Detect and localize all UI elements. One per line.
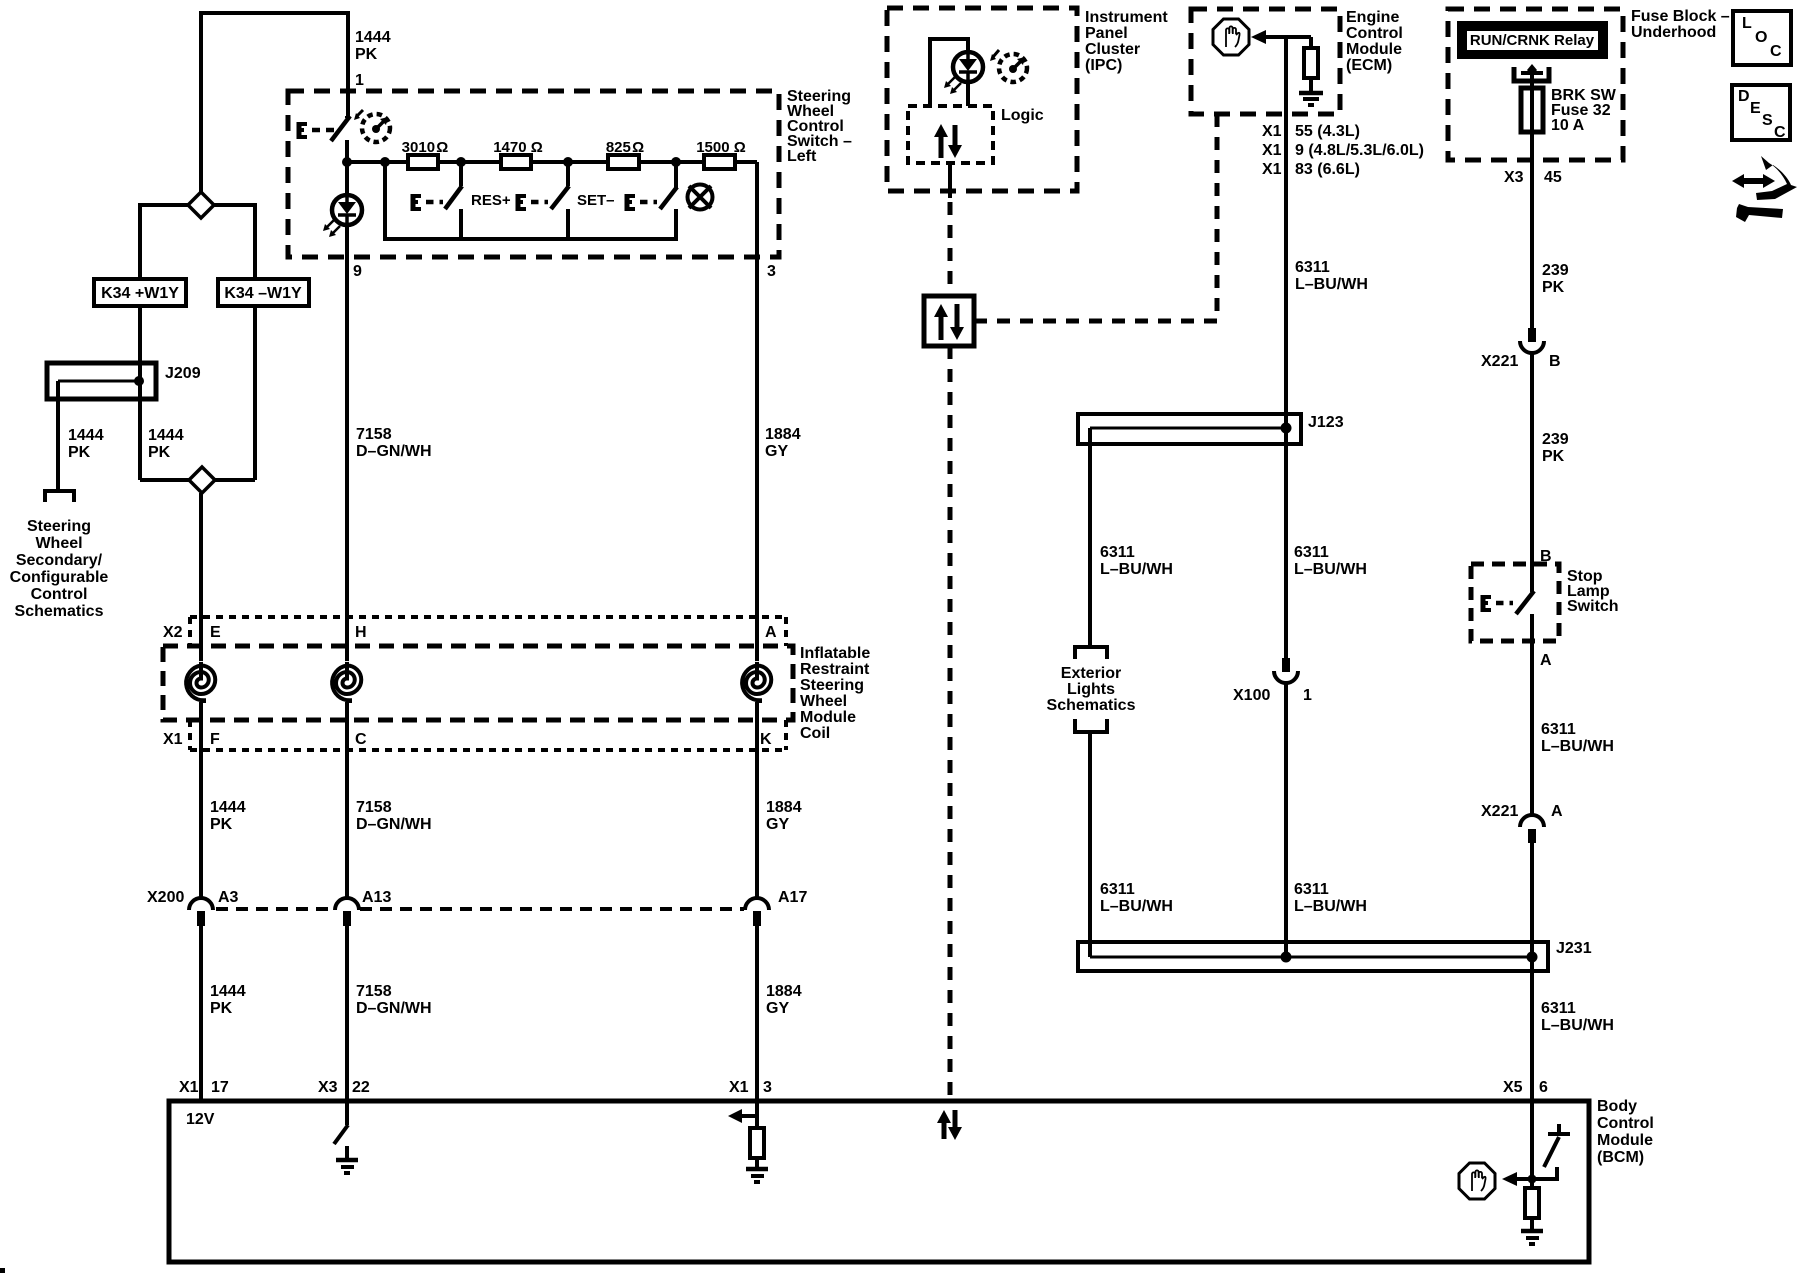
svg-text:7158: 7158: [356, 426, 392, 443]
svg-text:3: 3: [767, 263, 776, 280]
svg-text:239: 239: [1542, 262, 1569, 279]
page corner mark: [0, 1268, 5, 1273]
svg-text:PK: PK: [148, 444, 171, 461]
svg-text:239: 239: [1542, 431, 1569, 448]
svg-text:PK: PK: [210, 1000, 233, 1017]
ground (BCM pin 22): [345, 1146, 349, 1160]
svg-text:H: H: [355, 624, 367, 641]
fuse block underhood box: [1448, 9, 1623, 160]
svg-text:Logic: Logic: [1001, 107, 1044, 124]
wire diamond to coil E: [199, 493, 203, 664]
svg-text:RES+: RES+: [471, 192, 511, 209]
svg-text:45: 45: [1544, 169, 1562, 186]
wire coil C to X200 A13: [345, 702, 349, 899]
wire LED loop: [930, 39, 968, 106]
serial data dashed wire down: [948, 202, 953, 296]
switch S2 E symbol: [411, 194, 416, 211]
connector X200 terminal A3: [189, 898, 213, 910]
svg-text:K34 +W1Y: K34 +W1Y: [101, 285, 179, 302]
svg-text:A13: A13: [362, 889, 391, 906]
ground (BCM pin 6): [1521, 1229, 1543, 1234]
svg-text:Module: Module: [800, 709, 856, 726]
connector X100 terminal: [1282, 658, 1290, 672]
svg-text:PK: PK: [355, 46, 378, 63]
svg-text:X1: X1: [179, 1079, 199, 1096]
octagon hand symbol (ECM): [1213, 19, 1249, 55]
svg-text:SET–: SET–: [577, 192, 615, 209]
svg-text:1444: 1444: [355, 29, 391, 46]
gauge actuator arrow: [993, 50, 999, 57]
svg-text:PK: PK: [1542, 279, 1565, 296]
svg-text:12V: 12V: [186, 1111, 215, 1128]
stop lamp switch blade: [1516, 591, 1534, 614]
svg-text:7158: 7158: [356, 799, 392, 816]
DESC reference box: [1732, 85, 1790, 140]
serial data junction box: [924, 296, 974, 346]
RUN/CRNK relay: [1457, 21, 1608, 59]
BCM internal input arrow (pin 3): [755, 1101, 759, 1128]
switch S1 on/off: [345, 116, 349, 118]
svg-text:Lights: Lights: [1067, 681, 1115, 698]
connector X221 terminal A: [1520, 815, 1544, 827]
wire coil F to X200 A3: [199, 702, 203, 899]
coil 1 (E-F): [179, 661, 223, 705]
wire rail to pin 3: [755, 162, 759, 664]
svg-text:6311: 6311: [1100, 881, 1135, 898]
svg-text:L–BU/WH: L–BU/WH: [1541, 1017, 1614, 1034]
svg-text:1470 Ω: 1470 Ω: [493, 139, 543, 156]
svg-text:(BCM): (BCM): [1597, 1149, 1644, 1166]
svg-text:6311: 6311: [1294, 544, 1329, 561]
svg-text:E: E: [1750, 100, 1761, 117]
wire LED to logic: [966, 82, 970, 106]
svg-text:A: A: [765, 624, 777, 641]
resistor 1470 ohm: [501, 155, 531, 169]
svg-text:1: 1: [355, 72, 364, 89]
svg-text:Switch: Switch: [1567, 598, 1619, 615]
svg-text:1884: 1884: [766, 983, 802, 1000]
LED emission arrows: [946, 77, 961, 92]
svg-text:1: 1: [1303, 687, 1312, 704]
svg-text:Schematics: Schematics: [15, 603, 104, 620]
resistor (ECM internal): [1309, 37, 1313, 48]
svg-text:S: S: [1762, 112, 1773, 129]
svg-text:X3: X3: [1504, 169, 1524, 186]
BCM serial data arrows: [942, 1123, 947, 1139]
svg-text:D: D: [1738, 88, 1750, 105]
lamp icon (circle X): [688, 185, 713, 210]
serial data dashed wire to BCM: [948, 346, 953, 1100]
svg-text:K34 –W1Y: K34 –W1Y: [224, 285, 302, 302]
switch S3 (tap 2): [566, 164, 570, 186]
svg-text:J123: J123: [1308, 414, 1344, 431]
svg-text:GY: GY: [766, 1000, 789, 1017]
svg-text:6311: 6311: [1541, 1000, 1576, 1017]
resistor (BCM pin 3): [750, 1128, 764, 1158]
diagnostic icon wrench: [1736, 204, 1783, 222]
svg-text:A17: A17: [778, 889, 807, 906]
gauge icon (cruise): [362, 114, 390, 142]
junction box arrows: [939, 317, 944, 340]
svg-text:F: F: [210, 731, 220, 748]
svg-text:O: O: [1755, 29, 1767, 46]
body control module box: [169, 1101, 1589, 1262]
coil 3 (A-K): [735, 661, 779, 705]
fuse BRK SW Fuse 32: [1521, 88, 1543, 132]
svg-text:Control: Control: [1597, 1115, 1654, 1132]
svg-text:X221: X221: [1481, 353, 1518, 370]
junction dots on rail: [342, 157, 352, 167]
splice pack J231: [1078, 942, 1548, 971]
svg-text:6: 6: [1539, 1079, 1548, 1096]
LED cruise indicator: [953, 52, 983, 82]
wire exterior lights to J231: [1088, 732, 1092, 957]
wire ECM 55 to J123: [1284, 37, 1288, 414]
splice diamond bottom: [140, 478, 189, 482]
wire X221 B to stop lamp switch: [1530, 353, 1534, 592]
LED emission arrows: [325, 220, 340, 235]
wire S1 to rail: [345, 140, 349, 164]
resistor K34 +W1Y: [94, 279, 186, 306]
switch S4 E symbol: [625, 194, 630, 211]
logic bidirectional arrows: [939, 133, 944, 158]
svg-text:83 (6.6L): 83 (6.6L): [1295, 161, 1360, 178]
svg-text:6311: 6311: [1295, 259, 1330, 276]
stop lamp switch dashes: [1496, 601, 1513, 606]
connector X221 terminal B: [1528, 328, 1536, 342]
svg-text:6311: 6311: [1541, 721, 1576, 738]
svg-text:Engine: Engine: [1346, 9, 1399, 26]
wire diamond to K34-W1Y: [214, 205, 255, 279]
svg-text:9 (4.8L/5.3L/6.0L): 9 (4.8L/5.3L/6.0L): [1295, 142, 1424, 159]
svg-text:C: C: [1774, 124, 1786, 141]
ground (ECM): [1299, 91, 1323, 96]
svg-text:825 Ω: 825 Ω: [606, 139, 644, 156]
connector X200 terminal A17: [745, 898, 769, 910]
diagnostic icon double arrow: [1741, 178, 1766, 184]
engine control module box: [1191, 9, 1340, 114]
off-page connector (steering wheel secondary): [45, 491, 74, 502]
wire X221 A to J231: [1530, 843, 1534, 957]
switch S1 E symbol: [297, 122, 302, 139]
svg-text:C: C: [355, 731, 367, 748]
svg-text:GY: GY: [765, 443, 788, 460]
svg-text:X1: X1: [1262, 142, 1282, 159]
svg-text:K: K: [760, 731, 772, 748]
svg-text:X200: X200: [147, 889, 184, 906]
connector X2/X1 dotted box: [190, 615, 786, 619]
wire J231 to BCM X5 6: [1530, 957, 1534, 1102]
svg-text:A: A: [1551, 803, 1563, 820]
coil 2 (H-C): [325, 661, 369, 705]
off-page connector exterior lights (bottom): [1075, 719, 1107, 732]
svg-text:A3: A3: [218, 889, 239, 906]
wire pin 9 down to coil H: [345, 225, 349, 664]
wire X100 to J231: [1284, 683, 1288, 957]
arrow to octagon (ECM): [1251, 30, 1266, 44]
svg-text:Control: Control: [1346, 25, 1403, 42]
coil module dashed box: [163, 646, 793, 720]
svg-text:Inflatable: Inflatable: [800, 645, 870, 662]
wire J123 to X100: [1284, 444, 1288, 659]
svg-text:Steering: Steering: [800, 677, 864, 694]
switch S1 dashes: [312, 128, 334, 133]
wire K34+W1Y to lower diamond: [138, 306, 142, 480]
wire X200 A3 to BCM 17: [199, 926, 203, 1102]
svg-text:Control: Control: [31, 586, 88, 603]
svg-text:10 A: 10 A: [1551, 117, 1585, 134]
wire K34-W1Y to lower diamond: [253, 306, 257, 480]
svg-text:Wheel: Wheel: [35, 535, 82, 552]
wire coil K to X200 A17: [755, 702, 759, 899]
svg-text:3010 Ω: 3010 Ω: [402, 139, 449, 156]
svg-text:Schematics: Schematics: [1047, 697, 1136, 714]
svg-text:L–BU/WH: L–BU/WH: [1100, 898, 1173, 915]
BCM internal switch (pin 22): [345, 1101, 349, 1125]
svg-text:Secondary/: Secondary/: [16, 552, 103, 569]
connector X200 terminal A13: [335, 898, 359, 910]
off-page connector exterior lights (top): [1075, 647, 1107, 659]
switch S3 dashes: [531, 200, 548, 205]
wire diamond to K34+W1Y: [140, 205, 188, 279]
svg-text:X221: X221: [1481, 803, 1518, 820]
splice diamond top: [188, 192, 214, 218]
resistor K34 -W1Y: [218, 279, 309, 306]
resistor (BCM pin 6): [1525, 1188, 1539, 1218]
steering wheel control switch box: [288, 91, 779, 257]
svg-text:22: 22: [352, 1079, 370, 1096]
diagnostic icon outline arrow: [1756, 156, 1797, 200]
svg-text:Restraint: Restraint: [800, 661, 870, 678]
svg-text:(ECM): (ECM): [1346, 57, 1392, 74]
svg-text:X1: X1: [1262, 161, 1282, 178]
svg-text:L: L: [1742, 15, 1752, 32]
svg-text:L–BU/WH: L–BU/WH: [1100, 561, 1173, 578]
svg-text:9: 9: [353, 263, 362, 280]
svg-text:Steering: Steering: [27, 518, 91, 535]
switch S2 dashes: [426, 200, 443, 205]
svg-text:A: A: [1540, 652, 1552, 669]
wire stop lamp switch to X221 A: [1530, 614, 1534, 816]
wire X200 A13 to BCM 22: [345, 926, 349, 1102]
arrow to octagon (BCM): [1516, 1177, 1532, 1181]
svg-text:X2: X2: [163, 624, 183, 641]
svg-text:D–GN/WH: D–GN/WH: [356, 816, 432, 833]
svg-text:X5: X5: [1503, 1079, 1523, 1096]
resistor 1500 ohm: [704, 155, 735, 169]
svg-text:L–BU/WH: L–BU/WH: [1541, 738, 1614, 755]
switch S4 (tap 3): [674, 164, 678, 188]
svg-text:7158: 7158: [356, 983, 392, 1000]
svg-text:Underhood: Underhood: [1631, 24, 1716, 41]
LOC reference box: [1733, 11, 1791, 65]
svg-text:Exterior: Exterior: [1061, 665, 1121, 682]
switch S1 actuator arrow: [357, 110, 363, 116]
switch S3 E symbol: [516, 194, 521, 211]
gauge icon (IPC): [999, 54, 1027, 82]
svg-text:X3: X3: [318, 1079, 338, 1096]
svg-text:C: C: [1770, 43, 1782, 60]
svg-text:L–BU/WH: L–BU/WH: [1294, 561, 1367, 578]
svg-text:1444: 1444: [68, 427, 104, 444]
svg-text:17: 17: [211, 1079, 229, 1096]
svg-text:X1: X1: [1262, 123, 1282, 140]
svg-text:J231: J231: [1556, 940, 1592, 957]
wire J209 branch: [56, 381, 60, 491]
svg-text:1444: 1444: [210, 799, 246, 816]
wire logic to serial link: [948, 163, 952, 198]
svg-text:1884: 1884: [765, 426, 801, 443]
svg-text:X1: X1: [729, 1079, 749, 1096]
svg-text:RUN/CRNK Relay: RUN/CRNK Relay: [1470, 32, 1595, 49]
connector X200 dashed body: [216, 907, 744, 911]
svg-text:L–BU/WH: L–BU/WH: [1295, 276, 1368, 293]
svg-text:B: B: [1549, 353, 1561, 370]
svg-text:Cluster: Cluster: [1085, 41, 1140, 58]
svg-text:Module: Module: [1597, 1132, 1653, 1149]
svg-text:1444: 1444: [210, 983, 246, 1000]
svg-text:Left: Left: [787, 148, 817, 165]
svg-text:Wheel: Wheel: [800, 693, 847, 710]
wire J123 to exterior lights: [1088, 428, 1092, 645]
logic box: [908, 106, 993, 163]
switch S2 (tap 1): [459, 164, 463, 186]
svg-text:D–GN/WH: D–GN/WH: [356, 443, 432, 460]
svg-text:D–GN/WH: D–GN/WH: [356, 1000, 432, 1017]
svg-text:E: E: [210, 624, 221, 641]
switch S4 dashes: [640, 200, 657, 205]
stop lamp switch E symbol: [1481, 595, 1486, 612]
svg-text:Body: Body: [1597, 1098, 1637, 1115]
svg-text:1444: 1444: [148, 427, 184, 444]
resistor rail: [347, 160, 757, 164]
svg-text:PK: PK: [68, 444, 91, 461]
svg-text:X100: X100: [1233, 687, 1270, 704]
wire 1444 PK top loop: [201, 13, 348, 192]
svg-text:Configurable: Configurable: [10, 569, 109, 586]
svg-text:Module: Module: [1346, 41, 1402, 58]
BCM internal switch (pin 6): [1532, 1167, 1557, 1179]
wire X200 A17 to BCM 3: [755, 926, 759, 1102]
stop lamp switch box: [1471, 564, 1559, 641]
relay output terminal cup: [1514, 67, 1549, 81]
svg-text:Fuse Block –: Fuse Block –: [1631, 8, 1730, 25]
instrument panel cluster box: [887, 8, 1077, 191]
svg-text:PK: PK: [1542, 448, 1565, 465]
ground (BCM pin 3): [746, 1167, 768, 1172]
resistor 3010 ohm: [408, 155, 438, 169]
svg-text:Instrument: Instrument: [1085, 9, 1168, 26]
svg-text:6311: 6311: [1100, 544, 1135, 561]
splice pack J123: [1284, 414, 1288, 444]
svg-text:Coil: Coil: [800, 725, 830, 742]
svg-text:3: 3: [763, 1079, 772, 1096]
svg-text:L–BU/WH: L–BU/WH: [1294, 898, 1367, 915]
common bottom rail: [383, 162, 387, 241]
svg-text:X1: X1: [163, 731, 183, 748]
resistor 825 ohm: [608, 155, 639, 169]
splice pack J209: [47, 363, 156, 399]
svg-text:(IPC): (IPC): [1085, 57, 1122, 74]
svg-text:J209: J209: [165, 365, 201, 382]
BCM stop lamp input wire: [1530, 1101, 1534, 1188]
wire right into diamond: [215, 478, 255, 482]
terminal pin: [1521, 71, 1543, 75]
svg-text:1884: 1884: [766, 799, 802, 816]
svg-text:6311: 6311: [1294, 881, 1329, 898]
serial data dashed wire to ECM: [974, 114, 1217, 321]
svg-text:1500 Ω: 1500 Ω: [696, 139, 746, 156]
svg-text:55 (4.3L): 55 (4.3L): [1295, 123, 1360, 140]
svg-text:PK: PK: [210, 816, 233, 833]
svg-text:Panel: Panel: [1085, 25, 1128, 42]
LED indicator on wire 9: [345, 164, 349, 195]
svg-text:GY: GY: [766, 816, 789, 833]
octagon hand symbol (BCM): [1459, 1163, 1495, 1199]
